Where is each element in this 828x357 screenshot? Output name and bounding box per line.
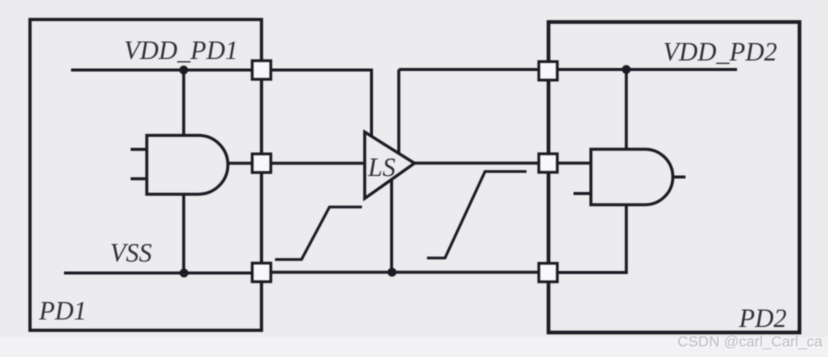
svg-text:VDD_PD2: VDD_PD2 [663, 38, 777, 67]
svg-text:PD1: PD1 [38, 296, 87, 325]
svg-text:CSDN @carl_Carl_ca: CSDN @carl_Carl_ca [678, 335, 824, 351]
svg-text:PD2: PD2 [738, 304, 787, 333]
svg-text:VDD_PD1: VDD_PD1 [124, 36, 238, 65]
svg-text:VSS: VSS [110, 239, 152, 268]
svg-text:LS: LS [367, 153, 395, 182]
